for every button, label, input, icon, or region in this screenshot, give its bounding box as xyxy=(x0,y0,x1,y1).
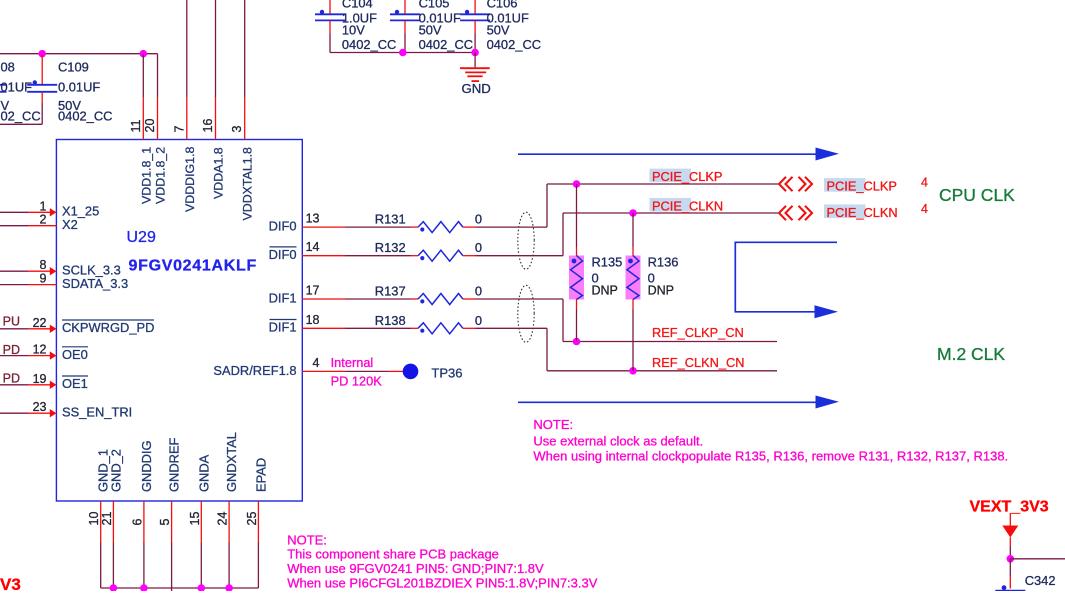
svg-text:GNDA: GNDA xyxy=(196,454,211,492)
svg-text:VDD1.8_2: VDD1.8_2 xyxy=(154,147,168,204)
pin 4 SADR/REF1.8 label xyxy=(213,356,319,378)
svg-text:OE0: OE0 xyxy=(62,347,88,362)
svg-text:3: 3 xyxy=(230,126,244,133)
pin 13 DIF0 label xyxy=(269,212,320,234)
svg-text:13: 13 xyxy=(306,212,320,226)
pin 20 VDD1.8_2 xyxy=(143,98,168,204)
svg-text:SS_EN_TRI: SS_EN_TRI xyxy=(62,405,132,420)
pin 10 GND_1 xyxy=(87,449,111,588)
pin 12 OE0 xyxy=(0,343,88,362)
pin 23 SS_EN_TRI xyxy=(0,400,132,419)
svg-text:PD: PD xyxy=(3,343,20,357)
svg-text:0: 0 xyxy=(475,240,482,255)
wire VEXT right xyxy=(1010,558,1065,560)
svg-text:0402_CC: 0402_CC xyxy=(487,37,541,52)
svg-text:R135: R135 xyxy=(592,254,623,269)
junction at pin-11 branch xyxy=(140,50,148,58)
net label PD (cut) 2 xyxy=(3,371,20,385)
svg-text:DIF1: DIF1 xyxy=(269,290,297,305)
svg-text:50V: 50V xyxy=(419,23,442,38)
note right xyxy=(533,417,1008,464)
pin 21 GND_2 xyxy=(100,449,124,588)
svg-text:08: 08 xyxy=(1,60,15,75)
svg-text:24: 24 xyxy=(216,512,230,526)
junction PCIE_CLKP / R135 xyxy=(573,180,581,188)
junction REF_CLKN_CN / R136 xyxy=(629,367,637,375)
svg-text:4: 4 xyxy=(921,175,928,189)
pin 24 GNDXTAL xyxy=(216,432,240,588)
resistor R138 0 ohm xyxy=(302,313,482,334)
svg-text:DIF0: DIF0 xyxy=(269,219,297,234)
wire R131 out xyxy=(476,184,548,227)
svg-text:Internal: Internal xyxy=(331,355,374,370)
svg-text:02_CC: 02_CC xyxy=(1,108,41,123)
svg-text:19: 19 xyxy=(33,372,47,386)
note bottom xyxy=(287,532,598,590)
svg-text:R137: R137 xyxy=(375,284,406,299)
junction REF_CLKP_CN / R135 xyxy=(573,338,581,346)
op-amp U1 substitute: IC U29 box xyxy=(56,140,302,502)
capacitor C104 xyxy=(315,0,396,53)
svg-text:0402_CC: 0402_CC xyxy=(58,108,112,123)
svg-text:22: 22 xyxy=(33,316,47,330)
capacitor C105 xyxy=(390,0,473,53)
svg-text:14: 14 xyxy=(306,240,320,254)
resistor R137 0 ohm xyxy=(302,284,482,305)
svg-text:7: 7 xyxy=(172,126,186,133)
svg-text:REF_CLKN_CN: REF_CLKN_CN xyxy=(652,355,744,370)
junction VEXT_3V3 xyxy=(1007,555,1015,563)
pin 14 DIF0 label xyxy=(269,240,320,262)
pin 3 VDDXTAL1.8 xyxy=(230,0,255,221)
junction at C109 top xyxy=(38,50,46,58)
pin 17 DIF1 label xyxy=(269,284,320,306)
svg-text:C105: C105 xyxy=(419,0,450,11)
refdes U29 xyxy=(127,229,156,246)
svg-text:Use external clock as default.: Use external clock as default. xyxy=(533,434,703,449)
svg-text:SDATA_3.3: SDATA_3.3 xyxy=(62,276,128,291)
svg-text:VEXT_3V3: VEXT_3V3 xyxy=(970,498,1049,515)
svg-text:C104: C104 xyxy=(342,0,373,11)
svg-text:NOTE:: NOTE: xyxy=(533,417,573,432)
pin 18 DIF1 label xyxy=(269,313,320,335)
pin 16 VDDA1.8 xyxy=(201,0,226,199)
svg-text:GND: GND xyxy=(462,81,491,96)
svg-text:X2: X2 xyxy=(62,217,78,232)
testpoint TP36 xyxy=(302,364,418,380)
svg-text:R136: R136 xyxy=(648,254,679,269)
svg-text:9: 9 xyxy=(40,272,47,286)
svg-text:R132: R132 xyxy=(375,240,406,255)
net label PU (cut) xyxy=(3,314,20,328)
label TP36 xyxy=(431,365,462,380)
svg-text:CKPWRGD_PD: CKPWRGD_PD xyxy=(62,320,154,335)
svg-text:12: 12 xyxy=(33,343,47,357)
svg-text:R138: R138 xyxy=(375,313,406,328)
svg-text:PU: PU xyxy=(3,314,20,328)
pin 7 VDDDIG1.8 xyxy=(172,0,197,212)
port label PCIE_CLKN xyxy=(824,202,928,220)
junction at C105 bottom xyxy=(399,49,407,57)
svg-text:VDDDIG1.8: VDDDIG1.8 xyxy=(183,146,197,212)
svg-text:GNDDIG: GNDDIG xyxy=(139,440,154,492)
svg-text:When use PI6CFGL201BZDIEX PIN5: When use PI6CFGL201BZDIEX PIN5:1.8V;PIN7… xyxy=(287,576,598,591)
arrow top (to CPU CLK) xyxy=(518,148,839,161)
svg-text:20: 20 xyxy=(143,119,157,133)
svg-text:PCIE_CLKN: PCIE_CLKN xyxy=(827,205,898,220)
svg-text:This component share PCB packa: This component share PCB package xyxy=(287,546,499,561)
svg-text:2: 2 xyxy=(40,213,47,227)
svg-text:9FGV0241AKLF: 9FGV0241AKLF xyxy=(129,258,257,275)
svg-text:0: 0 xyxy=(475,313,482,328)
svg-text:50V: 50V xyxy=(487,23,510,38)
arrow bottom xyxy=(518,396,839,409)
svg-text:PCIE_CLKN: PCIE_CLKN xyxy=(652,198,723,213)
wire net REF_CLKN_CN xyxy=(547,370,777,372)
net label REF_CLKN_CN xyxy=(652,355,744,370)
off-page connector PCIE_CLKP xyxy=(779,177,812,191)
svg-text:C106: C106 xyxy=(487,0,518,11)
svg-text:1: 1 xyxy=(40,199,47,213)
junction at C106 bottom xyxy=(471,49,479,57)
svg-text:PCIE_CLKP: PCIE_CLKP xyxy=(827,179,897,194)
wire net PCIE_CLKP xyxy=(547,183,778,185)
wire R132 out xyxy=(476,213,564,256)
pin 9 SDATA_3.3 xyxy=(0,272,128,291)
svg-text:0402_CC: 0402_CC xyxy=(419,37,473,52)
svg-text:10V: 10V xyxy=(342,23,365,38)
power label V3 (cut) xyxy=(0,575,21,594)
wire cap-bank ground bus xyxy=(330,52,475,54)
ground GND xyxy=(460,68,491,96)
junction PCIE_CLKN / R136 xyxy=(629,209,637,217)
text M.2 CLK xyxy=(937,344,1005,364)
junction GND bus x=201.3 xyxy=(198,584,206,592)
svg-text:17: 17 xyxy=(306,284,320,298)
svg-text:DIF0: DIF0 xyxy=(269,247,297,262)
svg-text:11: 11 xyxy=(129,119,143,132)
svg-text:R131: R131 xyxy=(375,212,406,227)
junction GND bus x=113.4 xyxy=(110,584,118,592)
svg-text:DNP: DNP xyxy=(592,283,618,297)
net label REF_CLKP_CN xyxy=(652,325,744,340)
junction GND bus x=229.1 xyxy=(225,584,233,592)
capacitor C109 xyxy=(27,54,112,125)
pin 11 VDD1.8_1 xyxy=(129,54,154,204)
diff-pair ellipse y=240.7 xyxy=(518,212,534,269)
wire net PCIE_CLKN xyxy=(563,212,778,214)
text Internal PD 120K xyxy=(331,355,383,388)
svg-text:VDDA1.8: VDDA1.8 xyxy=(212,147,226,199)
net label PCIE_CLKN xyxy=(650,198,724,213)
svg-text:6: 6 xyxy=(130,519,144,526)
svg-text:C342: C342 xyxy=(1025,573,1056,588)
svg-text:NOTE:: NOTE: xyxy=(287,532,327,547)
text CPU CLK xyxy=(939,185,1015,205)
wire R137 out xyxy=(476,299,564,342)
wire C108-C109 bottom xyxy=(0,123,42,125)
svg-text:V3: V3 xyxy=(0,575,21,591)
svg-text:PCIE_CLKP: PCIE_CLKP xyxy=(652,169,722,184)
pin 5 GNDREF xyxy=(158,437,182,591)
svg-text:SADR/REF1.8: SADR/REF1.8 xyxy=(213,363,296,378)
svg-text:CPU CLK: CPU CLK xyxy=(939,185,1015,205)
wire VDD1.8 bus top-left xyxy=(0,54,158,98)
net label PCIE_CLKP xyxy=(650,169,723,184)
svg-text:GND_2: GND_2 xyxy=(108,449,123,492)
svg-text:DNP: DNP xyxy=(648,283,674,297)
svg-text:EPAD: EPAD xyxy=(253,458,268,492)
svg-text:OE1: OE1 xyxy=(62,376,88,391)
svg-text:21: 21 xyxy=(100,512,114,526)
resistor R132 0 ohm xyxy=(302,240,482,261)
resistor R135 0 DNP xyxy=(569,184,622,342)
power symbol VEXT_3V3 xyxy=(970,498,1049,559)
svg-text:18: 18 xyxy=(306,313,320,327)
pin 15 GNDA xyxy=(188,454,212,588)
resistor R136 0 DNP xyxy=(626,213,679,371)
svg-text:8: 8 xyxy=(40,258,47,272)
capacitor C342 (cut at bottom) xyxy=(995,573,1060,596)
wire to ground xyxy=(474,53,476,68)
net label PD (cut) 1 xyxy=(3,343,20,357)
wire R138 out xyxy=(476,328,548,371)
capacitor C106 xyxy=(460,0,541,53)
pin 19 OE1 xyxy=(0,372,88,391)
svg-text:15: 15 xyxy=(188,512,202,526)
diff-pair ellipse y=313.8 xyxy=(518,285,534,342)
svg-text:GNDREF: GNDREF xyxy=(167,437,182,492)
svg-text:0: 0 xyxy=(475,212,482,227)
svg-text:M.2 CLK: M.2 CLK xyxy=(937,344,1005,364)
value 9FGV0241AKLF xyxy=(129,258,257,275)
svg-text:0.01UF: 0.01UF xyxy=(58,80,100,95)
port label PCIE_CLKP xyxy=(824,175,928,193)
pin 25 EPAD xyxy=(245,458,269,588)
pin 6 GNDDIG xyxy=(130,440,154,588)
svg-text:0: 0 xyxy=(475,284,482,299)
wire net REF_CLKP_CN xyxy=(563,341,777,343)
svg-text:TP36: TP36 xyxy=(431,365,462,380)
pin 8 SCLK_3.3 xyxy=(0,258,121,277)
svg-text:When using internal clockpopul: When using internal clockpopulate R135, … xyxy=(533,449,1008,464)
svg-text:When use 9FGV0241 PIN5: GND;PI: When use 9FGV0241 PIN5: GND;PIN7:1.8V xyxy=(287,561,544,576)
resistor R131 0 ohm xyxy=(302,212,482,233)
svg-text:PD 120K: PD 120K xyxy=(331,373,383,388)
wire VEXT down xyxy=(1009,559,1011,589)
svg-text:4: 4 xyxy=(921,202,928,216)
svg-text:VDDXTAL1.8: VDDXTAL1.8 xyxy=(241,147,255,221)
svg-text:23: 23 xyxy=(33,400,47,414)
pin 2 X2 xyxy=(0,213,78,232)
svg-text:4: 4 xyxy=(313,356,320,370)
pin 1 X1_25 xyxy=(0,199,99,218)
svg-text:5: 5 xyxy=(158,519,172,526)
junction GND bus x=143.9 xyxy=(140,584,148,592)
svg-text:25: 25 xyxy=(245,512,259,526)
svg-text:16: 16 xyxy=(201,119,215,133)
svg-text:U29: U29 xyxy=(127,229,156,246)
arrow bracket (to M.2 CLK) xyxy=(735,242,838,318)
capacitor C108 (cut at left edge) xyxy=(0,60,41,124)
svg-text:REF_CLKP_CN: REF_CLKP_CN xyxy=(652,325,744,340)
pin 22 CKPWRGD_PD xyxy=(0,316,154,335)
svg-text:PD: PD xyxy=(3,371,20,385)
svg-text:0402_CC: 0402_CC xyxy=(342,37,396,52)
svg-text:DIF1: DIF1 xyxy=(269,320,297,335)
svg-text:GNDXTAL: GNDXTAL xyxy=(224,432,239,492)
svg-text:VDD1.8_1: VDD1.8_1 xyxy=(139,147,153,204)
off-page connector PCIE_CLKN xyxy=(779,206,812,220)
wire GND bus below IC xyxy=(101,587,259,589)
svg-text:C109: C109 xyxy=(58,60,89,75)
